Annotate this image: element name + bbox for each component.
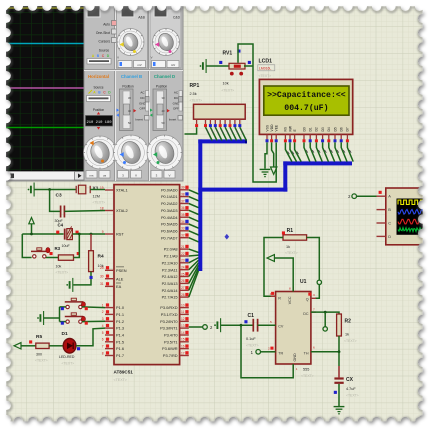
pin RP1-1	[195, 119, 198, 127]
svg-text:C4: C4	[58, 223, 64, 228]
svg-text:TH: TH	[304, 351, 309, 355]
wire P0.3 to bus	[189, 210, 199, 214]
svg-text:P0.3/AD3: P0.3/AD3	[161, 208, 178, 213]
svg-text:24: 24	[181, 266, 185, 270]
svg-text:D2: D2	[315, 127, 319, 131]
state square 555 TR	[270, 347, 273, 350]
wire rail to S3	[60, 321, 66, 323]
channel B controls	[116, 85, 149, 131]
svg-text:<TEXT>: <TEXT>	[246, 344, 259, 348]
svg-text:300: 300	[36, 353, 42, 357]
node J6 junction TH	[338, 350, 341, 353]
svg-text:P3.1/TXD: P3.1/TXD	[161, 312, 178, 317]
state square RV1 wiper	[237, 50, 240, 53]
wire LCD pin x335 to bus	[335, 142, 341, 161]
svg-text:1k: 1k	[345, 333, 349, 337]
pin P3.6/WR (16)	[162, 344, 189, 351]
pin RST (9)	[102, 230, 125, 237]
wire RP1-1 under panel	[185, 127, 197, 134]
panel separators	[84, 2, 183, 181]
pin RP1-9	[238, 119, 241, 127]
pin P1.3 (4)	[102, 324, 124, 331]
resistor R1	[283, 235, 307, 240]
svg-text:A: A	[388, 194, 391, 199]
svg-text:22: 22	[181, 252, 185, 256]
svg-text:P2.6/A14: P2.6/A14	[162, 288, 179, 293]
svg-text:1: 1	[102, 303, 104, 307]
svg-text:V: V	[135, 174, 137, 178]
state square 555 Q (over)	[308, 293, 311, 296]
svg-text:EA: EA	[116, 284, 122, 289]
knob horizontal	[84, 136, 117, 169]
svg-text:P0.5/AD5: P0.5/AD5	[161, 222, 178, 227]
pin LCD RW	[288, 125, 292, 142]
wire P3.3 to terminal 2	[189, 326, 203, 328]
state square scope A	[379, 191, 382, 194]
svg-text:P3.3/INT1: P3.3/INT1	[160, 326, 178, 331]
wire TH down	[338, 352, 340, 366]
svg-text:D0: D0	[302, 127, 306, 131]
wire C1 to CV	[258, 324, 276, 326]
pin ALE (30)	[100, 275, 124, 282]
bus lower horizontal	[198, 188, 287, 192]
svg-text:2: 2	[102, 310, 104, 314]
svg-text:ms: ms	[90, 174, 94, 178]
svg-text:U1: U1	[300, 279, 307, 285]
pin RP1-7	[229, 119, 232, 127]
bus RP1 horizontal	[198, 139, 247, 143]
pin P2.6/A14 (27)	[162, 286, 189, 293]
pin LCD D4	[327, 127, 331, 142]
svg-text:D1: D1	[309, 127, 313, 131]
state square C1	[244, 320, 247, 323]
wire P2.3 to bus	[189, 260, 199, 270]
pin P3.3/INT1 (13)	[160, 324, 189, 331]
wire P2.1 to bus	[189, 254, 199, 257]
wire B5 to C1	[221, 324, 254, 326]
svg-text:C&D: C&D	[173, 16, 181, 20]
svg-text:P2.4/A12: P2.4/A12	[162, 274, 178, 279]
knob channel B	[114, 135, 149, 170]
svg-text:12M: 12M	[93, 195, 100, 199]
oscilloscope component U3	[386, 188, 424, 245]
svg-text:P3.6/WR: P3.6/WR	[162, 346, 178, 351]
pin P0.4/AD4 (35)	[161, 213, 189, 220]
pin LCD VDD	[270, 124, 274, 142]
svg-text:X1: X1	[93, 186, 99, 192]
wire LCD pin x341.2 to bus	[341, 142, 347, 161]
pin dot RV1 b	[239, 72, 243, 76]
svg-text:Invert: Invert	[135, 118, 143, 122]
wire LCD pin x285.4 to bus	[285, 142, 292, 161]
state square RV1 left	[219, 61, 222, 64]
svg-text:P1.0: P1.0	[116, 305, 125, 310]
svg-text:P3.0/RXD: P3.0/RXD	[160, 305, 177, 310]
horizontal controls	[86, 86, 113, 130]
svg-text:P3.7/RD: P3.7/RD	[163, 353, 178, 358]
trace D green	[4, 127, 84, 129]
pin P3.7/RD (17)	[163, 351, 189, 358]
wire LCD pin x290 to bus	[290, 142, 297, 161]
svg-text:D3: D3	[321, 127, 325, 131]
state square 555 Q	[308, 292, 311, 295]
svg-text:0.1uF: 0.1uF	[246, 337, 256, 341]
svg-text:16: 16	[181, 344, 185, 348]
svg-text:<TEXT>: <TEXT>	[190, 99, 203, 103]
wire P0.7 to bus	[189, 238, 199, 242]
svg-text:37: 37	[181, 199, 185, 203]
svg-text:4: 4	[102, 324, 104, 328]
pin LCD E	[293, 129, 297, 143]
capacitor CX	[334, 366, 343, 384]
svg-text:18: 18	[100, 206, 104, 210]
svg-text:TR: TR	[278, 351, 283, 355]
svg-text:4.7uF: 4.7uF	[346, 387, 356, 391]
svg-text:3: 3	[313, 293, 315, 297]
knob plate A&B	[117, 9, 148, 68]
pin P2.1/A9 (22)	[164, 252, 189, 259]
svg-text:11: 11	[181, 310, 185, 314]
wire RP1-8 to bus	[235, 127, 242, 140]
oscilloscope window panel	[2, 2, 183, 181]
wire LCD pin x310.2 to bus	[310, 142, 316, 161]
svg-text:P1.6: P1.6	[116, 346, 124, 351]
svg-text:us: us	[103, 174, 107, 178]
svg-text:mV: mV	[171, 63, 175, 67]
pin P2.2/A10 (23)	[162, 259, 189, 266]
svg-text:P0.4/AD4: P0.4/AD4	[161, 215, 178, 220]
svg-text:10k: 10k	[223, 82, 229, 86]
svg-text:VEE: VEE	[275, 124, 279, 131]
trigger buttons	[96, 21, 117, 53]
svg-text:D6: D6	[340, 127, 344, 131]
wire arrow to R5	[21, 345, 36, 347]
wire P0.1 to bus	[189, 197, 199, 201]
svg-text:P1.4: P1.4	[116, 333, 125, 338]
wire rail to C4	[22, 233, 63, 235]
state square C4 left	[56, 231, 59, 234]
pin P3.1/TXD (11)	[161, 310, 189, 317]
svg-text:26: 26	[181, 279, 185, 283]
svg-text:Position: Position	[93, 108, 105, 112]
pin P2.5/A13 (26)	[162, 279, 189, 286]
power terminal arrow up	[29, 218, 34, 235]
svg-text:V: V	[151, 56, 153, 60]
svg-text:Source: Source	[99, 49, 110, 53]
svg-text:P2.1/A9: P2.1/A9	[164, 254, 178, 259]
power symbol B1	[28, 183, 34, 197]
resistor R2	[337, 314, 342, 336]
node J5 junction DC	[324, 311, 327, 314]
panel tab 3	[154, 5, 167, 18]
state square S3 left	[61, 322, 64, 325]
wire P2.7 to bus	[189, 270, 199, 297]
svg-text:6: 6	[102, 338, 104, 342]
wire RP1-3 to bus	[210, 127, 217, 140]
svg-text:<TEXT>: <TEXT>	[301, 374, 314, 378]
microcontroller U2 AT89C51	[114, 185, 180, 365]
svg-text:<TEXT>: <TEXT>	[93, 201, 106, 205]
wire S3 to P1.2	[82, 320, 105, 322]
svg-text:39: 39	[181, 186, 185, 190]
wire button rail	[59, 307, 61, 322]
svg-text:OFF: OFF	[173, 107, 179, 111]
wire RV1 wiper to LCD VEE	[238, 44, 276, 182]
state square C4 right	[76, 231, 79, 234]
wire C3 to XTAL2	[64, 210, 105, 213]
pin scope B	[377, 207, 392, 212]
wire P2.5 to bus	[189, 265, 199, 283]
svg-text:P0.1/AD1: P0.1/AD1	[161, 194, 178, 199]
potentiometer RV1	[229, 63, 245, 69]
waveform C red	[398, 219, 423, 224]
trace B cyan	[4, 43, 84, 45]
svg-text:Channel D: Channel D	[154, 74, 175, 79]
svg-text:23: 23	[181, 259, 185, 263]
svg-text:25: 25	[181, 272, 185, 276]
pin scope A	[377, 194, 392, 199]
node J2 junction	[30, 233, 33, 236]
svg-text:38: 38	[181, 192, 185, 196]
svg-text:VDD: VDD	[270, 124, 274, 132]
svg-text:C3: C3	[56, 193, 62, 199]
svg-text:P3.4/T0: P3.4/T0	[164, 333, 178, 338]
svg-text:R2: R2	[345, 319, 352, 325]
svg-text:Cursors: Cursors	[98, 40, 110, 44]
svg-text:14: 14	[181, 331, 185, 335]
pin dot RV1 a	[230, 72, 234, 76]
pin P3.5/T1 (15)	[164, 338, 189, 345]
svg-text:1k: 1k	[286, 245, 290, 249]
svg-text:R4: R4	[98, 254, 104, 260]
svg-text:>>Capacitance:<<: >>Capacitance:<<	[267, 90, 346, 100]
wire R1 to 555 Q	[307, 238, 320, 299]
svg-text:29: 29	[100, 266, 104, 270]
pin P0.0/AD0 (39)	[161, 186, 189, 193]
svg-text:A&B: A&B	[138, 16, 145, 20]
svg-text:D4: D4	[327, 127, 331, 131]
pin RP1-6	[224, 119, 227, 127]
svg-text:17: 17	[181, 351, 185, 355]
pin P1.6 (7)	[102, 344, 124, 351]
wire RP1-6 to bus	[225, 127, 232, 140]
pin P3.2/INT0 (12)	[160, 317, 189, 324]
svg-text:P1.7: P1.7	[116, 353, 124, 358]
svg-text:4: 4	[270, 292, 272, 296]
state square S3 right	[85, 322, 88, 325]
resistor R5	[36, 343, 49, 348]
wire R5 to D1	[49, 345, 63, 347]
knob trigger A&B	[117, 16, 146, 56]
svg-text:<TEXT>: <TEXT>	[285, 251, 298, 255]
pin P0.7/AD7 (32)	[161, 233, 189, 240]
svg-text:LCD1: LCD1	[259, 59, 273, 65]
svg-text:V: V	[117, 56, 119, 60]
pin RP1-3	[209, 119, 212, 127]
svg-text:P1.2: P1.2	[116, 319, 124, 324]
svg-text:15: 15	[181, 338, 185, 342]
svg-text:<TEXT>: <TEXT>	[346, 394, 359, 398]
blue diamond marker	[225, 234, 230, 240]
capacitor C3	[61, 206, 65, 218]
svg-text:31: 31	[100, 282, 104, 286]
svg-text:ALE: ALE	[116, 276, 124, 281]
svg-text:P1.5: P1.5	[116, 339, 124, 344]
svg-text:6: 6	[313, 345, 315, 349]
bus LCD horizontal	[283, 161, 352, 165]
svg-text:10k: 10k	[56, 265, 62, 269]
svg-text:5: 5	[102, 331, 104, 335]
svg-text:30: 30	[100, 275, 104, 279]
wire 555 VCC up	[282, 258, 294, 292]
svg-text:004.7(uF): 004.7(uF)	[284, 103, 328, 113]
pin LCD D1	[309, 127, 313, 142]
pin LCD D0	[302, 127, 306, 142]
wire P2.4 to bus	[189, 263, 199, 277]
panel tab 2	[121, 5, 134, 18]
svg-text:P2.3/A11: P2.3/A11	[162, 267, 178, 272]
svg-text:CV: CV	[278, 324, 284, 328]
svg-text:DC: DC	[303, 312, 309, 316]
wire LCD pin x294.6 to bus	[295, 142, 302, 161]
bus riser to LCD	[283, 161, 287, 191]
wire B3 to rail	[44, 317, 60, 319]
svg-text:<TEXT>: <TEXT>	[222, 89, 235, 93]
LCD LCD1 body	[259, 79, 352, 134]
svg-text:P1.3: P1.3	[116, 326, 124, 331]
state square R3 right	[77, 252, 80, 255]
wire P0.4 to bus	[189, 217, 199, 221]
knob channel D	[147, 135, 182, 170]
channel D controls	[150, 85, 183, 131]
wire D1 to P1.3	[76, 328, 105, 346]
svg-text:RS: RS	[284, 126, 288, 131]
resistor R4	[89, 251, 94, 272]
node J7 junction	[240, 324, 243, 327]
svg-text:C: C	[388, 220, 391, 225]
wire C4 to RST	[73, 233, 105, 235]
svg-text:33: 33	[181, 227, 185, 231]
value boxes A&B	[117, 56, 145, 68]
wire LCD pin x304 to bus	[304, 142, 310, 161]
wire rail to S2	[60, 306, 66, 308]
svg-text:B: B	[388, 207, 391, 212]
svg-text:D7: D7	[346, 127, 350, 131]
svg-text:555: 555	[303, 368, 309, 372]
svg-text:RV1: RV1	[223, 51, 233, 57]
pin P3.0/RXD (10)	[160, 303, 189, 310]
svg-text:5: 5	[270, 320, 272, 324]
svg-text:P3.2/INT0: P3.2/INT0	[160, 319, 178, 324]
wire R3 up to RST net	[74, 234, 80, 258]
state square D1 right	[77, 347, 80, 350]
node J4 junction	[78, 233, 81, 236]
state square CX	[334, 391, 337, 394]
value boxes C&D	[151, 56, 179, 68]
svg-text:CX: CX	[346, 377, 354, 383]
svg-text:Horizontal: Horizontal	[88, 74, 109, 79]
resistor pack RP1	[194, 104, 246, 119]
svg-text:P2.5/A13: P2.5/A13	[162, 281, 178, 286]
svg-text:R5: R5	[36, 334, 42, 340]
svg-text:D5: D5	[333, 127, 337, 131]
pin P2.0/A8 (21)	[164, 245, 189, 252]
wire P2.6 to bus	[189, 268, 199, 291]
wire X1 to XTAL1	[90, 189, 105, 191]
power symbol B4	[200, 59, 207, 73]
svg-text:<TEXT>: <TEXT>	[344, 339, 357, 343]
wire R1 to 555 R	[264, 238, 283, 297]
svg-text:mV: mV	[137, 63, 141, 67]
pin P0.6/AD6 (33)	[161, 227, 189, 234]
wire terminal 2 to scope A	[357, 195, 377, 197]
pin RP1-2	[204, 119, 207, 127]
svg-text:3: 3	[102, 317, 104, 321]
pin P0.3/AD3 (36)	[161, 206, 189, 213]
wire S2 to P1.0	[82, 306, 105, 309]
wire P0.0 to bus	[189, 190, 199, 194]
svg-text:19: 19	[100, 186, 104, 190]
svg-text:34: 34	[181, 220, 185, 224]
wire J1 down to C3	[50, 190, 60, 212]
pin P3.4/T0 (14)	[164, 331, 189, 338]
wire VDD to power arrow	[272, 142, 274, 167]
svg-text:Q: Q	[306, 297, 309, 301]
pin LCD D6	[340, 127, 344, 142]
wire 555 TH	[311, 351, 339, 353]
wire J3 to R4	[90, 234, 92, 251]
waveform B blue	[398, 209, 423, 214]
svg-text:Source: Source	[93, 86, 103, 90]
pin P1.2 (3)	[102, 317, 124, 324]
push button S3	[65, 313, 86, 324]
waveform A yellow	[398, 200, 426, 204]
svg-text:V: V	[168, 174, 170, 178]
svg-text:<TEXT>: <TEXT>	[62, 362, 75, 366]
svg-text:<TEXT>: <TEXT>	[114, 378, 127, 382]
svg-text:LM016L: LM016L	[259, 67, 271, 71]
power symbol B3	[37, 311, 44, 325]
screen scrollbar	[4, 172, 84, 181]
wire LCD pin x347.4 to bus	[347, 142, 353, 161]
pin P2.4/A12 (25)	[162, 272, 189, 279]
power terminal arrow left VCC	[267, 255, 274, 262]
push button S2	[65, 298, 86, 308]
svg-text:10uF: 10uF	[62, 244, 71, 248]
push button S1	[31, 248, 50, 259]
svg-text:R: R	[278, 296, 281, 300]
bus end cap	[245, 139, 247, 143]
svg-text:9: 9	[102, 230, 104, 234]
svg-text:P0.0/AD0: P0.0/AD0	[161, 187, 178, 192]
wire B4 to RV1	[206, 65, 229, 67]
terminal node on Q wire	[317, 280, 321, 284]
pin scope D	[377, 234, 392, 239]
pin XTAL1 (19)	[100, 186, 128, 193]
svg-text:2.5k: 2.5k	[190, 92, 197, 96]
svg-text:<TEXT>: <TEXT>	[259, 74, 272, 78]
ground G2	[334, 407, 345, 415]
svg-text:13: 13	[181, 324, 185, 328]
pin RP1-5	[219, 119, 222, 127]
trace C magenta	[4, 87, 84, 89]
svg-text:7: 7	[102, 344, 104, 348]
chip U1 555	[276, 292, 311, 365]
terminal node below DC	[323, 327, 327, 331]
bus trunk P0/P2	[198, 139, 202, 271]
pin P1.4 (5)	[102, 331, 125, 338]
panel bottom boxes	[86, 171, 175, 179]
